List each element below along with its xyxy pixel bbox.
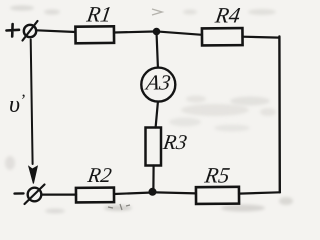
wire R4 to top-right corner xyxy=(243,36,280,39)
label - (negative terminal sign) xyxy=(15,192,24,195)
label R3 xyxy=(161,130,189,154)
svg-text:R3: R3 xyxy=(161,130,189,154)
label R1 xyxy=(84,2,113,27)
label + (positive terminal sign) xyxy=(7,24,20,37)
svg-text:’: ’ xyxy=(20,91,26,110)
scan mark between R1 and R4 xyxy=(152,9,162,15)
wire R2 to - terminal xyxy=(42,194,76,196)
label A3 (inside ammeter) xyxy=(143,71,173,95)
node B (bottom junction dot) xyxy=(149,188,157,196)
resistor R4 xyxy=(202,28,243,45)
wire ammeter to R3 xyxy=(156,102,158,128)
svg-text:R2: R2 xyxy=(85,163,113,187)
wire R3 to node B xyxy=(152,166,154,189)
label R5 xyxy=(202,163,231,188)
scan smudge top-left xyxy=(10,5,276,15)
scan smudge bottom xyxy=(5,156,293,214)
wire node B to R2 xyxy=(114,193,149,194)
voltage arrowhead xyxy=(29,166,38,183)
wire R1 to node A xyxy=(114,32,154,33)
wire right side vertical xyxy=(278,37,281,193)
node A (top junction dot) xyxy=(153,28,161,36)
svg-text:R1: R1 xyxy=(84,2,113,27)
small dark speck marks bottom-center xyxy=(108,204,130,210)
voltage arrow line (left side) xyxy=(31,40,33,165)
resistor R2 xyxy=(76,188,114,203)
terminal (negative), circle with slash xyxy=(25,185,45,205)
svg-text:A3: A3 xyxy=(143,71,173,95)
label R2 xyxy=(85,163,113,187)
terminal (positive), circle with slash xyxy=(23,21,38,41)
resistor R3 (vertical) xyxy=(146,128,162,166)
resistor R1 xyxy=(75,26,114,43)
svg-text:R4: R4 xyxy=(213,3,242,28)
ammeter A3 (circle) xyxy=(141,68,175,102)
wire + terminal to R1 xyxy=(37,30,76,32)
svg-text:R5: R5 xyxy=(202,163,231,188)
scan smudge area right-middle xyxy=(169,96,276,132)
resistor R5 xyxy=(196,187,239,204)
wire node A down to ammeter A3 xyxy=(157,35,158,68)
wire R5 to node B xyxy=(156,192,196,193)
wire node A to R4 xyxy=(160,32,202,35)
svg-text:υ: υ xyxy=(9,92,20,118)
label R4 xyxy=(213,3,242,28)
wire bottom-right corner to R5 xyxy=(239,192,280,193)
